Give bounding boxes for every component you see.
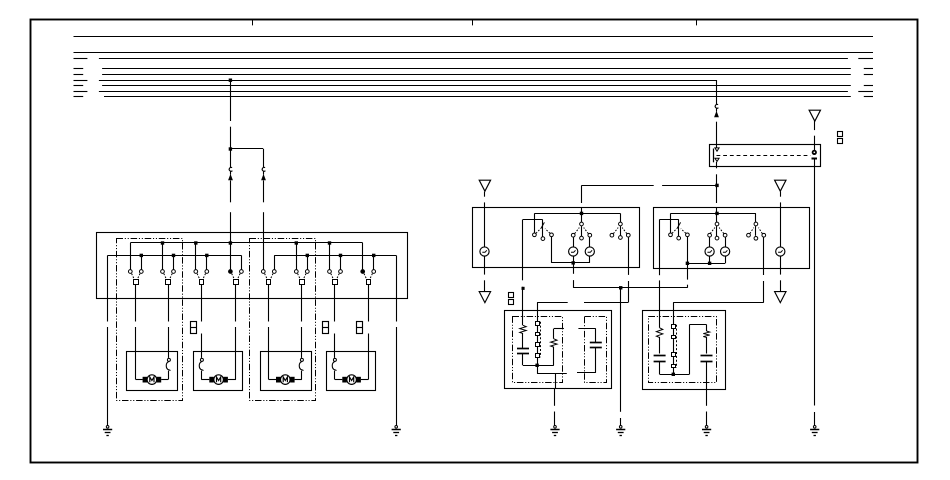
- switch S2 pole: [166, 280, 171, 285]
- bus wire 6: [74, 80, 88, 82]
- wire to bulb B1: [709, 237, 711, 247]
- switch SA1 right contact: [550, 233, 554, 237]
- switch S5 left contact wire: [263, 243, 265, 269]
- wire SA common down: [522, 219, 524, 267]
- switch SA1 dashes: [536, 229, 541, 234]
- node left feed split: [229, 147, 232, 150]
- switch S2 right contact wire: [173, 255, 175, 269]
- switch S7 left contact: [328, 270, 332, 274]
- wire breaker to ground: [814, 166, 816, 405]
- wire pole S2 to motor: [168, 284, 170, 321]
- wire pole S6 to motor: [301, 284, 303, 321]
- window motor M4 box: [327, 352, 376, 391]
- switch SA2 pivot: [580, 222, 584, 226]
- capacitor CR1: [654, 355, 666, 357]
- switch SA1 blade: [541, 222, 545, 228]
- switch SB1 left contact wire: [670, 213, 672, 232]
- wire CL1 down: [522, 354, 524, 366]
- switch S3 blade: [197, 274, 200, 280]
- switch S8 right contact wire: [373, 255, 375, 269]
- node ground branch: [619, 286, 622, 289]
- connector triangle T1: [809, 110, 820, 121]
- switch S1 right contact: [139, 270, 143, 274]
- switch SB1 left contact: [669, 233, 673, 237]
- switch SB3 left contact: [747, 233, 751, 237]
- resistor RL1: [520, 325, 526, 333]
- switch SA2 dashes: [575, 228, 580, 234]
- connector terminal on wire: [522, 287, 525, 290]
- wire ground mid: [620, 288, 622, 412]
- switch S5 blade: [265, 274, 268, 280]
- switch S8 pole: [367, 280, 371, 285]
- node bulb A: [572, 261, 575, 264]
- node condenser R: [672, 373, 675, 376]
- wire upper B: [671, 213, 756, 215]
- wire bulb A1 down: [573, 256, 575, 263]
- wire pole S8 to motor: [368, 284, 370, 321]
- bus wire 3: [74, 58, 88, 60]
- power window switch box B: [654, 208, 810, 269]
- motor M1: [143, 377, 148, 383]
- wire node R: [660, 374, 690, 376]
- switch SB2 pole: [715, 236, 719, 240]
- switch S6 pole: [300, 280, 305, 285]
- wire to bulb B2: [725, 237, 727, 247]
- resistor RL2: [551, 339, 557, 347]
- switch S1 right contact wire: [141, 255, 143, 269]
- power window master switch box: [97, 233, 408, 299]
- switch S6 left contact wire: [296, 243, 298, 269]
- ground G6: [813, 426, 816, 429]
- motor M3: [276, 377, 281, 383]
- switch SA2 right contact: [588, 233, 592, 237]
- switch S8 left contact wire: [362, 243, 364, 269]
- switch S2 left contact wire: [162, 243, 164, 269]
- node lower wire: [306, 254, 309, 257]
- resistor RR2: [703, 331, 709, 337]
- connector triangle T3: [479, 292, 490, 303]
- switch S3 right contact wire: [206, 255, 208, 269]
- wire feed left drop: [230, 80, 232, 121]
- switch S8 right contact: [372, 270, 376, 274]
- wire bulb A down: [484, 256, 486, 268]
- wire right feed lower: [716, 122, 718, 145]
- connector C4 marker: [838, 132, 843, 137]
- wire second B: [660, 219, 679, 221]
- node upper wire S4: [229, 241, 232, 244]
- motor M4 right lead: [368, 352, 370, 380]
- bus wire 4: [74, 68, 84, 70]
- wire bulb B2 down: [725, 256, 727, 263]
- node feed split right: [715, 184, 718, 187]
- switch SA1 left contact: [533, 233, 537, 237]
- wire T2 to box A: [484, 192, 486, 197]
- motor M3 right lead: [301, 352, 303, 358]
- wire SA3 down: [628, 237, 630, 267]
- ground G3: [554, 426, 557, 429]
- wire illumination B: [780, 208, 782, 247]
- node lower wire: [205, 254, 208, 257]
- switch SA2 feed wire: [581, 213, 583, 222]
- circuit breaker box: [710, 145, 821, 167]
- switch SB1 pole: [677, 236, 681, 240]
- bus wire 8: [74, 91, 88, 93]
- capacitor CL1: [517, 348, 529, 350]
- connector C1 marker: [191, 322, 197, 334]
- indicator bulb A2: [585, 247, 594, 256]
- wire condenser L ground: [554, 388, 556, 406]
- frame tick 3: [696, 19, 698, 25]
- switch S6 right contact: [305, 270, 309, 274]
- switch SB3 blade: [755, 226, 757, 236]
- door harness boundary 2: [250, 239, 316, 401]
- switch S2 left contact: [161, 270, 165, 274]
- wire node L: [523, 365, 554, 367]
- switch S5 right contact wire: [274, 255, 276, 269]
- connector C3 marker: [357, 322, 363, 334]
- wire RL2 down: [553, 347, 555, 366]
- switch SB3 dashes: [750, 228, 754, 234]
- switch SA1 common wire: [542, 219, 544, 236]
- wire feed to box B: [716, 185, 718, 203]
- node upper wire S2: [161, 241, 164, 244]
- motor M4: [342, 377, 347, 383]
- node lower wire: [172, 254, 175, 257]
- switch S8 left contact: [361, 270, 365, 274]
- wire condenser right feed B: [673, 302, 675, 324]
- pin strip L dashed: [540, 322, 542, 358]
- breaker element: [814, 145, 816, 151]
- bus wire 7: [74, 85, 84, 87]
- wire drop B lower: [263, 181, 265, 203]
- connector C2 marker: [323, 322, 329, 334]
- wire left ground drop: [107, 255, 109, 321]
- power window switch box A: [473, 208, 640, 268]
- motor M2 left lead: [201, 352, 203, 358]
- node lower wire: [339, 254, 342, 257]
- wire CR1 down: [659, 362, 661, 375]
- wire RL2 top: [554, 328, 564, 330]
- wire pole S5 to motor: [268, 284, 270, 321]
- switch SA3 blade: [620, 226, 622, 235]
- wire node L to ground: [537, 365, 539, 373]
- motor M2 right lead: [235, 352, 237, 380]
- switch SA3 left contact: [610, 233, 614, 237]
- motor M3 left lead: [268, 352, 270, 380]
- motor M2: [209, 377, 214, 383]
- pin strip L: [537, 325, 539, 332]
- switch S6 left contact: [294, 270, 298, 274]
- indicator bulb B2: [721, 247, 730, 256]
- switch SA2 pole: [580, 236, 584, 240]
- switch S2 blade: [164, 274, 167, 280]
- motor M4 left lead: [334, 352, 336, 358]
- wire upper A: [534, 213, 620, 215]
- switch SB3 pivot: [754, 222, 758, 226]
- window motor M3 box: [261, 352, 312, 391]
- node upper wire S3: [194, 241, 197, 244]
- wire A node down: [573, 263, 575, 268]
- switch SB3 feed wire: [755, 213, 757, 222]
- switch SB2 left contact: [708, 233, 712, 237]
- wire right ground drop: [396, 255, 398, 321]
- switch SB1 right contact: [686, 233, 690, 237]
- connector on drop B: [262, 167, 265, 171]
- switch SB2 feed wire: [716, 213, 718, 222]
- wire SB3 down: [763, 237, 765, 268]
- connector triangle T5: [775, 292, 786, 303]
- switch S8 blade: [364, 274, 367, 280]
- switch SB3 right contact: [762, 233, 766, 237]
- switch S7 left contact wire: [329, 243, 331, 269]
- frame tick 2: [472, 19, 474, 25]
- condenser L inner boundary 2: [585, 317, 607, 383]
- condenser L inner boundary 1: [513, 317, 563, 383]
- node feed A: [580, 212, 583, 215]
- breaker left terminal upper: [716, 145, 718, 149]
- wire condenser feed B: [537, 302, 539, 321]
- switch S7 blade: [331, 274, 334, 280]
- wire split horizontal: [230, 148, 263, 150]
- indicator bulb B1: [705, 247, 714, 256]
- wire illumination A: [484, 208, 486, 247]
- wire CR2 down: [706, 362, 708, 390]
- switch SA1 pole: [541, 237, 545, 241]
- switch SB1 common wire: [678, 219, 680, 236]
- motor M1 right lead: [168, 352, 170, 358]
- wire to bulb A2: [589, 237, 591, 247]
- switch SA3 pole: [619, 236, 623, 240]
- switch SA3 right contact: [626, 233, 630, 237]
- breaker blade bar: [713, 149, 715, 163]
- noise condenser box L: [505, 311, 612, 389]
- noise condenser box R: [643, 311, 726, 390]
- condenser R inner boundary: [649, 317, 717, 383]
- wire bulb node A: [552, 262, 590, 264]
- wire bulb B down: [780, 256, 782, 268]
- switch S3 pole: [200, 280, 204, 285]
- wire drop A upper: [230, 149, 232, 167]
- switch S4 pole: [234, 280, 239, 285]
- switch SB2 pivot: [715, 222, 719, 226]
- wire RR2 to CR2: [706, 337, 708, 354]
- node on bus wire 6: [229, 79, 232, 82]
- wire bulb B1 down: [709, 256, 711, 263]
- ground G2: [395, 426, 398, 429]
- wire feed right drop: [716, 80, 718, 104]
- wire RL1 to CL1: [522, 333, 524, 349]
- door harness boundary 1: [117, 239, 183, 401]
- connector in motor M2 left lead: [200, 358, 203, 361]
- connector in motor M4 left lead: [333, 358, 336, 361]
- bus wire lower in switch right: [274, 255, 396, 257]
- switch S2 right contact: [172, 270, 176, 274]
- switch S7 right contact wire: [340, 255, 342, 269]
- switch S4 right contact wire: [241, 255, 243, 269]
- wire bulb A2 down: [589, 256, 591, 263]
- switch S1 left contact: [128, 270, 132, 274]
- wire T4 to box B: [780, 192, 782, 197]
- wire feed to box A: [581, 185, 583, 203]
- switch SB1 dashes: [672, 229, 677, 234]
- wire SB1 right down: [687, 237, 689, 263]
- bus wire 9: [74, 96, 84, 98]
- breaker left terminal lower: [715, 158, 719, 161]
- ground G4: [619, 426, 622, 429]
- switch SA3 dashes: [613, 228, 618, 234]
- switch SA1 left contact wire: [534, 213, 536, 232]
- switch S1 left contact wire: [130, 243, 132, 269]
- node bulb B: [708, 262, 711, 265]
- switch SA3 pivot: [619, 222, 623, 226]
- resistor RR1: [656, 328, 662, 338]
- node upper wire S6: [295, 241, 298, 244]
- connector on right feed: [715, 104, 718, 108]
- capacitor CR2: [701, 355, 713, 357]
- node condenser L: [535, 364, 538, 367]
- illumination bulb B: [776, 247, 785, 256]
- window motor M1 box: [127, 352, 178, 391]
- wire pole S1 to motor: [135, 284, 137, 321]
- wire CL2 top: [578, 328, 595, 330]
- wire T1 to breaker: [814, 121, 816, 130]
- wire node A to node B: [573, 287, 687, 289]
- node lower wire: [140, 254, 143, 257]
- bus wire lower in switch left: [108, 255, 242, 257]
- wire second A: [523, 219, 543, 221]
- connector C5 marker: [509, 293, 514, 298]
- wire pole S3 to motor: [201, 284, 203, 321]
- wire pole S4 to motor: [235, 284, 237, 321]
- switch SB3 pole: [754, 236, 758, 240]
- wire CL2 down: [595, 348, 597, 373]
- wire SB3 to condenser: [673, 302, 764, 304]
- connector in motor M3 right lead: [300, 358, 303, 361]
- indicator bulb A1: [569, 247, 578, 256]
- connector triangle T4: [775, 180, 786, 191]
- switch S5 right contact: [272, 270, 276, 274]
- bus wire 1: [74, 36, 874, 38]
- wire riser R: [689, 325, 691, 375]
- switch S5 pole: [267, 280, 271, 285]
- wire feed crossover: [582, 185, 654, 187]
- switch SB1 blade: [677, 222, 681, 228]
- switch S6 blade: [298, 274, 301, 280]
- wire breaker output: [716, 166, 718, 168]
- bus wire 5: [74, 74, 84, 76]
- wire RR1 to CR1: [659, 337, 661, 354]
- switch SA2 left contact: [571, 233, 575, 237]
- switch S7 right contact: [339, 270, 343, 274]
- switch S3 right contact: [205, 270, 209, 274]
- switch S3 left contact: [194, 270, 198, 274]
- illumination bulb A: [480, 247, 489, 256]
- switch SB2 right contact: [723, 233, 727, 237]
- pin strip R dashed: [676, 325, 678, 368]
- wire bulb node B: [687, 263, 725, 265]
- switch S3 left contact wire: [195, 243, 197, 269]
- switch S7 pole: [333, 280, 338, 285]
- wire SB common down: [659, 219, 661, 268]
- wire condenser R ground: [706, 389, 708, 406]
- wire SA3 to condenser: [584, 302, 628, 304]
- bus wire 2: [74, 52, 874, 54]
- motor M1 left lead: [135, 352, 137, 380]
- switch S1 blade: [132, 274, 135, 280]
- frame tick 1: [252, 19, 254, 25]
- node lower wire: [372, 254, 375, 257]
- switch S1 pole: [134, 280, 139, 285]
- wire SA1 right down: [551, 237, 553, 263]
- capacitor CL2: [590, 342, 602, 344]
- switch S4 left contact: [229, 270, 233, 274]
- wire SB1 down: [687, 263, 689, 279]
- switch S4 blade: [232, 274, 235, 280]
- switch SB2 dashes: [710, 228, 715, 234]
- switch SA3 feed wire: [620, 213, 622, 222]
- switch S4 right contact: [240, 270, 244, 274]
- switch SB2 blade: [716, 226, 718, 236]
- switch SA2 blade: [581, 226, 583, 236]
- window motor M2 box: [194, 352, 243, 391]
- wire pole S7 to motor: [334, 284, 336, 321]
- node SB1: [686, 262, 689, 265]
- switch S5 left contact: [261, 270, 265, 274]
- connector in motor M1 right lead: [167, 358, 170, 361]
- ground G5: [705, 426, 708, 429]
- wire to bulb A1: [573, 237, 575, 247]
- wire drop B upper: [263, 149, 265, 167]
- ground G1: [106, 426, 109, 429]
- breaker linkage: [717, 155, 811, 157]
- bus wire upper in switch: [130, 242, 362, 244]
- switch S6 right contact wire: [307, 255, 309, 269]
- connector on drop A: [229, 167, 232, 171]
- connector triangle T2: [479, 180, 490, 191]
- wire drop A lower: [230, 181, 232, 203]
- node upper wire S7: [328, 241, 331, 244]
- node feed B: [715, 212, 718, 215]
- switch S4 left contact wire: [230, 243, 232, 269]
- pin strip R: [673, 324, 675, 326]
